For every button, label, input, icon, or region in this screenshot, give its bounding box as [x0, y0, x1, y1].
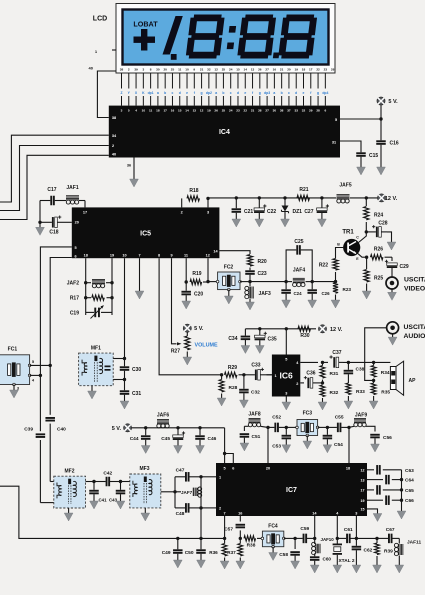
- svg-text:16: 16: [238, 512, 242, 516]
- svg-text:27: 27: [265, 68, 269, 72]
- 5V terminal top right: [380, 105, 382, 119]
- capacitor C52: [268, 423, 286, 433]
- 12V terminal: [378, 194, 386, 202]
- resistor R24: [365, 198, 367, 206]
- capacitor C64: [367, 479, 383, 481]
- node R28: [220, 373, 223, 376]
- capacitor C59: [295, 534, 315, 544]
- ground below C35: [255, 346, 264, 354]
- svg-text:40: 40: [89, 66, 94, 71]
- ground below C41: [90, 501, 99, 509]
- svg-text:R19: R19: [192, 271, 201, 277]
- svg-text:5 V.: 5 V.: [388, 99, 398, 105]
- ground below C53: [282, 445, 291, 453]
- IC6: [272, 355, 300, 397]
- ground below C24: [282, 300, 291, 308]
- C47 branch: [174, 477, 176, 492]
- svg-text:C59: C59: [300, 526, 309, 532]
- svg-text:R38: R38: [247, 543, 256, 549]
- svg-text:5: 5: [74, 246, 76, 250]
- IC6 pin3 ground: [285, 397, 287, 403]
- svg-text:d: d: [237, 91, 239, 95]
- potentiometer R27 VOLUME: [185, 336, 190, 350]
- svg-text:C42: C42: [103, 471, 112, 477]
- svg-text:DZ1: DZ1: [293, 209, 303, 215]
- capacitor C65: [367, 489, 374, 491]
- svg-text:d: d: [179, 91, 181, 95]
- resistor R18: [181, 198, 183, 207]
- svg-text:dp1: dp1: [148, 91, 154, 95]
- svg-text:17: 17: [163, 109, 167, 113]
- ground below R35: [369, 401, 378, 409]
- node R38: [239, 537, 242, 540]
- ground below audio connector: [388, 334, 397, 345]
- svg-text:C37: C37: [332, 350, 341, 356]
- svg-text:38: 38: [120, 68, 124, 72]
- node R34 bottom: [372, 379, 375, 382]
- wire FC2 to C24 node: [250, 281, 286, 283]
- ground below C45: [174, 446, 183, 454]
- rail A capacitor C39: [39, 375, 41, 432]
- wire IC5 pin14 to R20: [219, 251, 250, 254]
- svg-text:b: b: [164, 91, 166, 95]
- svg-text:1: 1: [219, 476, 221, 480]
- inductor JAF10: [314, 538, 316, 544]
- svg-text:20: 20: [163, 68, 167, 72]
- ground below C31: [120, 401, 129, 409]
- USCITA AUDIO tap wire: [365, 328, 387, 381]
- svg-text:R35: R35: [381, 390, 390, 396]
- node C38: [347, 361, 350, 364]
- ground below R37: [236, 561, 245, 569]
- MF3 output wire: [161, 491, 175, 493]
- svg-text:11: 11: [184, 254, 188, 258]
- inductor JAF11: [398, 538, 400, 543]
- svg-text:R29: R29: [228, 365, 237, 371]
- capacitor C61: [337, 534, 356, 544]
- svg-text:9: 9: [193, 68, 195, 72]
- LCD module outline: [116, 4, 335, 74]
- svg-text:6: 6: [232, 467, 234, 471]
- IC6 pin labels: [274, 358, 299, 396]
- svg-text:C36: C36: [306, 371, 315, 377]
- transformer MF3: [130, 474, 161, 508]
- svg-text:10: 10: [185, 68, 189, 72]
- capacitor C53: [282, 427, 292, 444]
- svg-text:5 V.: 5 V.: [112, 426, 122, 432]
- wire FC4 right: [284, 537, 295, 539]
- capacitor C43: [116, 482, 126, 502]
- svg-text:26: 26: [214, 109, 218, 113]
- svg-text:17: 17: [83, 210, 87, 214]
- resistor R20: [247, 255, 252, 267]
- capacitor C67: [377, 534, 399, 544]
- svg-text:C25: C25: [294, 239, 303, 245]
- svg-text:12 V.: 12 V.: [385, 196, 398, 202]
- svg-text:JAF10: JAF10: [321, 537, 335, 542]
- capacitor C57: [236, 524, 246, 529]
- svg-text:14: 14: [185, 109, 189, 113]
- node IC7 pin18 riser: [347, 426, 350, 429]
- svg-text:C: C: [356, 236, 359, 240]
- capacitor C42: [94, 477, 121, 487]
- ground below C21: [232, 219, 241, 227]
- ground below C18 node: [36, 222, 45, 235]
- svg-text:C26: C26: [322, 291, 331, 296]
- FC2 ground: [228, 290, 230, 296]
- MF2 output wire: [86, 481, 95, 483]
- resistor R23: [333, 283, 338, 294]
- svg-text:5: 5: [285, 358, 287, 362]
- ground below C49: [173, 560, 182, 568]
- svg-text:C45: C45: [161, 436, 170, 442]
- svg-text:C63: C63: [405, 468, 414, 474]
- capacitor C58: [294, 538, 296, 549]
- svg-text:3: 3: [142, 68, 144, 72]
- ground below IC5 pin7: [135, 291, 144, 299]
- wire rail B to MF2: [50, 481, 54, 483]
- svg-text:5: 5: [224, 467, 226, 471]
- ground below R25: [362, 291, 371, 299]
- wire IC4 pin5 to 5V rail: [340, 118, 381, 120]
- svg-text:5 V.: 5 V.: [194, 326, 204, 332]
- svg-text:C57: C57: [224, 527, 233, 533]
- capacitor C44: [144, 426, 147, 429]
- svg-text:JAF9: JAF9: [355, 413, 367, 419]
- wire FC2 right node: [240, 281, 250, 283]
- resistor R38: [244, 536, 256, 541]
- svg-text:dp4: dp4: [322, 91, 328, 95]
- svg-text:C35: C35: [268, 337, 277, 343]
- svg-text:28: 28: [316, 109, 320, 113]
- ground below C22: [255, 219, 264, 227]
- wire IC4 pin34 exit left: [0, 135, 109, 202]
- svg-text:C32: C32: [251, 390, 260, 396]
- ground below C62: [355, 556, 357, 565]
- capacitor C17: [40, 196, 62, 206]
- transformer MF1: [79, 353, 114, 386]
- svg-text:JAF11: JAF11: [407, 540, 421, 546]
- electrolytic C18: [40, 216, 61, 228]
- svg-text:C21: C21: [244, 209, 253, 215]
- svg-text:23: 23: [324, 68, 328, 72]
- svg-text:16: 16: [171, 109, 175, 113]
- svg-text:13: 13: [251, 68, 255, 72]
- svg-text:R27: R27: [171, 349, 180, 355]
- node at C16 top: [379, 117, 382, 120]
- node bus R36: [223, 537, 226, 540]
- svg-text:R23: R23: [343, 287, 352, 292]
- ground below C34: [241, 346, 250, 354]
- ground below C27: [318, 219, 327, 227]
- resistor R25: [366, 257, 368, 269]
- wire IC5 pin5 to rail A: [40, 247, 71, 375]
- resistor R29: [225, 372, 237, 377]
- svg-text:10: 10: [122, 254, 126, 258]
- wire rail A to MF2: [40, 502, 53, 504]
- capacitor C51: [243, 426, 245, 431]
- TR1 collector wire: [359, 232, 367, 243]
- capacitor C32: [239, 375, 249, 400]
- svg-text:FC3: FC3: [303, 411, 313, 417]
- svg-text:R30: R30: [300, 333, 309, 339]
- svg-text:C22: C22: [267, 209, 276, 215]
- capacitor C60: [310, 553, 320, 561]
- svg-text:24: 24: [229, 109, 233, 113]
- svg-text:MF2: MF2: [65, 468, 75, 474]
- svg-text:29: 29: [309, 109, 313, 113]
- right caps rail ground: [401, 470, 403, 511]
- wire IC4 pin40 exit left: [0, 155, 109, 219]
- svg-text:14: 14: [244, 68, 248, 72]
- IC5 pin labels: [74, 210, 218, 258]
- svg-text:C51: C51: [252, 434, 261, 440]
- svg-text:2: 2: [181, 210, 183, 214]
- IC7 pin4 wire: [336, 516, 338, 538]
- capacitor C34: [241, 329, 251, 346]
- wire JAF1 to IC5 pin17: [84, 201, 86, 208]
- 12V supply rail: [208, 197, 318, 199]
- svg-text:R36: R36: [209, 550, 218, 555]
- 5V terminal volume: [183, 324, 191, 332]
- LCD colon: [227, 26, 236, 49]
- svg-text:R32: R32: [330, 390, 339, 396]
- LCD to IC4 wires upper: [122, 73, 326, 89]
- LCD digit 1 with decimal point: [163, 16, 183, 60]
- ground below DZ1: [281, 219, 290, 227]
- resistor R32: [320, 385, 325, 397]
- svg-text:dp3: dp3: [264, 91, 270, 95]
- ground below C28: [387, 242, 396, 250]
- svg-text:a: a: [215, 91, 217, 95]
- svg-text:C55: C55: [335, 415, 344, 421]
- capacitor C20: [185, 280, 188, 283]
- node C53: [285, 426, 288, 429]
- svg-text:C61: C61: [344, 527, 353, 533]
- resistor R36: [222, 544, 227, 556]
- node R31 top: [321, 361, 324, 364]
- ground below C15: [357, 167, 366, 175]
- MF1 ground: [91, 386, 93, 391]
- capacitor C62: [352, 538, 362, 556]
- svg-text:19: 19: [110, 254, 114, 258]
- electrolytic C28: [366, 225, 387, 237]
- FC3 ground: [306, 436, 308, 442]
- svg-text:g: g: [317, 91, 319, 95]
- wire rail to IC6 pin5: [285, 327, 288, 330]
- wire IC4 pin31 to C15: [340, 141, 361, 150]
- svg-text:IC4: IC4: [219, 129, 230, 136]
- svg-text:19: 19: [294, 68, 298, 72]
- svg-text:R22: R22: [319, 263, 328, 269]
- electrolytic C37: [323, 361, 329, 363]
- svg-text:12: 12: [206, 254, 210, 258]
- svg-text:C47: C47: [176, 467, 185, 473]
- LCD pin 1 tick: [112, 49, 116, 51]
- wire C48 to IC7 pin2: [201, 507, 216, 509]
- inductor JAF2 tank: [85, 258, 87, 315]
- node IC7 pin14: [313, 537, 316, 540]
- svg-text:37: 37: [287, 109, 291, 113]
- svg-text:12: 12: [214, 68, 218, 72]
- node IC7 pin4: [336, 537, 339, 540]
- svg-text:C53: C53: [272, 444, 281, 450]
- svg-text:C66: C66: [405, 498, 414, 504]
- wire IC5 pin6 to rail B: [50, 258, 72, 366]
- ground below C26: [308, 300, 317, 308]
- capacitor C31: [120, 380, 130, 402]
- node bus C50: [199, 537, 202, 540]
- svg-text:Z: Z: [120, 91, 122, 95]
- resistor R22: [335, 272, 337, 282]
- ground below C44: [141, 446, 150, 454]
- MF1 internal cap: [105, 366, 111, 371]
- inductor JAF3: [249, 282, 251, 286]
- supply rail above IC6: [245, 328, 316, 330]
- svg-text:27: 27: [265, 109, 269, 113]
- svg-text:e: e: [186, 91, 188, 95]
- svg-text:30: 30: [156, 68, 160, 72]
- svg-text:13: 13: [361, 478, 365, 482]
- svg-text:15: 15: [236, 68, 240, 72]
- transformer MF2: [54, 476, 86, 508]
- 12V terminal above IC6: [319, 325, 327, 333]
- resistor R17: [84, 296, 87, 299]
- svg-text:5: 5: [335, 118, 337, 122]
- svg-text:12 V.: 12 V.: [330, 327, 343, 333]
- svg-text:5: 5: [128, 109, 130, 113]
- wire IC5 pin12 to FC2: [207, 258, 209, 281]
- resistor R39: [375, 543, 380, 555]
- svg-text:31: 31: [332, 141, 336, 145]
- svg-text:c: c: [288, 91, 290, 95]
- svg-text:20: 20: [75, 221, 79, 225]
- svg-text:C62: C62: [364, 548, 373, 554]
- USCITA AUDIO connector: [387, 322, 399, 334]
- svg-text:b: b: [222, 91, 224, 95]
- wire to R39: [356, 537, 377, 539]
- svg-text:USCITA: USCITA: [404, 324, 425, 331]
- svg-text:7: 7: [138, 254, 140, 258]
- capacitor C46: [198, 426, 201, 429]
- node C43: [119, 480, 122, 483]
- ground below C58: [291, 561, 300, 569]
- capacitor C23: [245, 268, 255, 282]
- C48 branch: [174, 492, 176, 508]
- svg-text:C38: C38: [356, 367, 365, 373]
- svg-text:C15: C15: [369, 153, 378, 159]
- ground below C43: [116, 501, 125, 509]
- svg-text:25: 25: [171, 68, 175, 72]
- svg-text:2: 2: [128, 68, 130, 72]
- TR1 emitter wire: [358, 254, 367, 258]
- resistor R31: [320, 366, 325, 378]
- svg-text:24: 24: [229, 68, 233, 72]
- IC4 top pin numbers: [121, 109, 327, 113]
- svg-text:c: c: [172, 91, 174, 95]
- svg-text:C17: C17: [47, 187, 56, 193]
- inductor JAF7: [177, 487, 202, 497]
- ground below R28: [217, 398, 226, 406]
- capacitor C30: [120, 359, 130, 380]
- svg-text:JAF6: JAF6: [157, 413, 169, 419]
- node bus C49: [176, 537, 179, 540]
- capacitor C26: [307, 282, 317, 300]
- ground below R33: [344, 401, 353, 409]
- svg-text:C54: C54: [334, 442, 343, 448]
- ground below C60: [314, 561, 316, 565]
- svg-text:2: 2: [219, 507, 221, 511]
- wire IC6 pin4: [300, 361, 318, 363]
- ground below C56: [371, 444, 380, 452]
- C28 ground wire: [387, 232, 392, 242]
- svg-text:JAF4: JAF4: [293, 268, 305, 274]
- svg-text:TR1: TR1: [342, 230, 354, 236]
- ground below video connector: [388, 289, 397, 300]
- svg-text:3: 3: [355, 512, 357, 516]
- svg-text:C46: C46: [208, 436, 217, 442]
- svg-text:R20: R20: [258, 259, 267, 265]
- wire FC3 right: [318, 426, 328, 428]
- svg-text:R18: R18: [189, 188, 198, 194]
- svg-text:C58: C58: [279, 552, 288, 558]
- resistor R34: [371, 366, 376, 378]
- capacitor C41: [89, 482, 99, 502]
- wire C17 left to node: [39, 201, 41, 223]
- svg-text:32: 32: [207, 68, 211, 72]
- svg-text:AUDIO: AUDIO: [404, 333, 425, 340]
- wire IC5 pin8 audio line: [159, 258, 222, 375]
- svg-text:g: g: [259, 91, 261, 95]
- svg-text:C44: C44: [130, 436, 139, 442]
- svg-text:R34: R34: [381, 370, 390, 376]
- ground below C32: [240, 400, 249, 408]
- MF3 ground: [144, 508, 146, 513]
- ground below C16: [377, 167, 386, 175]
- svg-text:2: 2: [112, 144, 114, 148]
- svg-text:22: 22: [244, 109, 248, 113]
- svg-text:18: 18: [346, 467, 350, 471]
- svg-text:11: 11: [178, 68, 182, 72]
- resistor R30: [298, 326, 310, 331]
- svg-text:R37: R37: [227, 550, 236, 555]
- svg-text:26: 26: [258, 68, 262, 72]
- transistor TR1: [343, 239, 360, 256]
- node IC7 pin20 riser: [266, 426, 269, 429]
- svg-text:C27: C27: [304, 209, 313, 215]
- node C24: [284, 280, 287, 283]
- MF2 ground: [68, 508, 70, 513]
- svg-text:25: 25: [222, 109, 226, 113]
- svg-text:18: 18: [302, 68, 306, 72]
- svg-text:R24: R24: [374, 213, 383, 219]
- svg-text:a: a: [273, 91, 275, 95]
- svg-text:7: 7: [224, 512, 226, 516]
- svg-text:28: 28: [258, 109, 262, 113]
- svg-text:JAF7: JAF7: [181, 490, 193, 495]
- wire IC5 pin7 ground: [139, 258, 141, 291]
- ground below R23: [331, 300, 340, 308]
- audio output rail: [343, 361, 390, 363]
- svg-text:C29: C29: [400, 264, 409, 270]
- svg-text:LCD: LCD: [93, 16, 107, 23]
- svg-text:3: 3: [121, 109, 123, 113]
- svg-text:15: 15: [361, 508, 365, 512]
- capacitor C54: [323, 427, 333, 444]
- svg-text:C23: C23: [258, 271, 267, 277]
- node R24 top: [365, 196, 368, 199]
- svg-text:8: 8: [150, 68, 152, 72]
